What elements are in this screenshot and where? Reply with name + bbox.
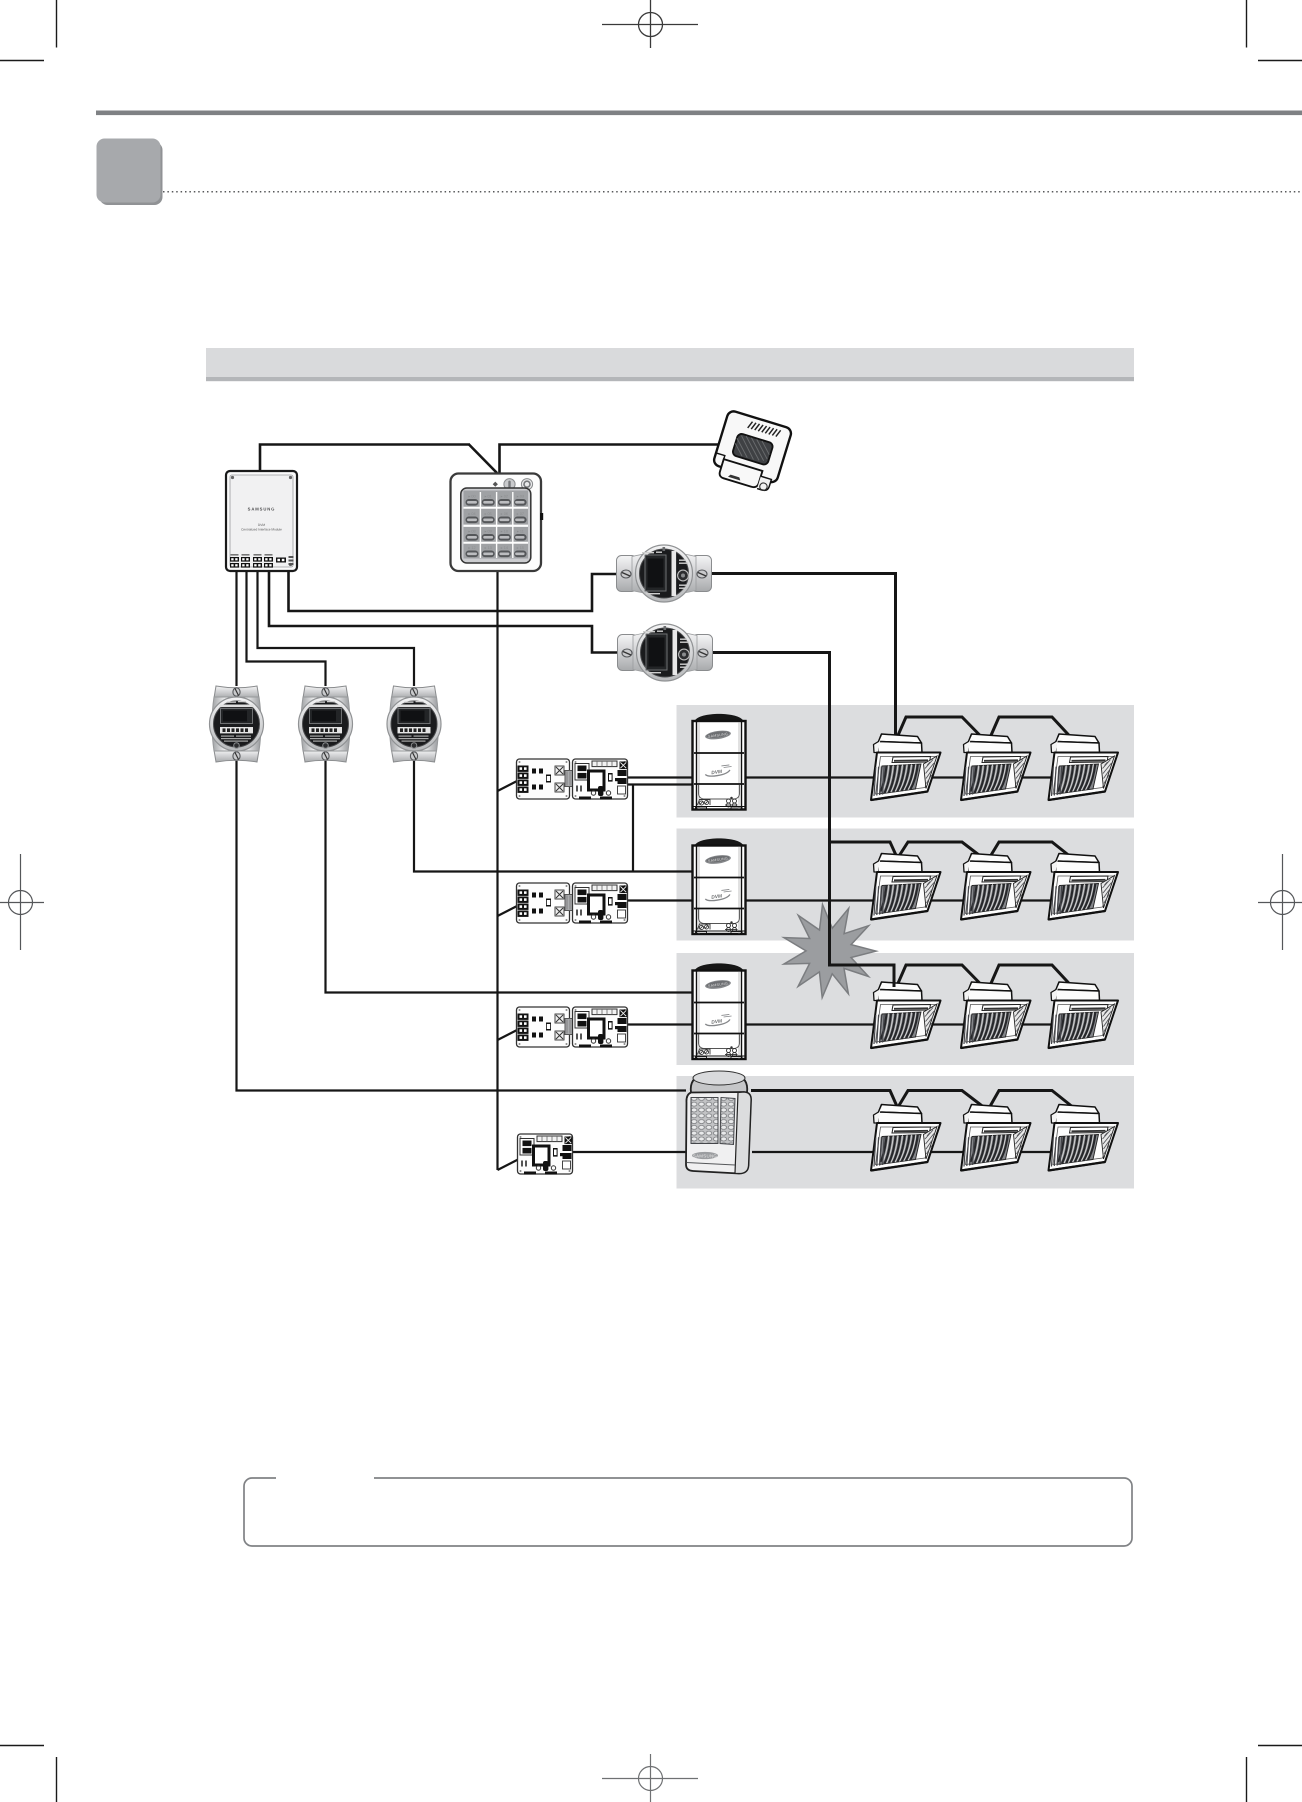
wire meter A to row4 feeder bbox=[237, 761, 687, 1091]
svg-text:▸ 07: ▸ 07 bbox=[517, 512, 524, 516]
svg-text:▸ 14: ▸ 14 bbox=[501, 546, 508, 550]
wire row4 cassette chain a bbox=[899, 1091, 984, 1108]
svg-text:▸ 02: ▸ 02 bbox=[501, 495, 508, 499]
wire branch to controller top bbox=[469, 445, 497, 474]
wire bus tap row2 bbox=[830, 842, 898, 859]
wire row1 outdoor-indoor line bbox=[745, 776, 1108, 778]
wire box to meter M1 bbox=[289, 571, 619, 611]
wire row4 pcb to outdoor bbox=[571, 1151, 688, 1153]
indoor cassette IU11 bbox=[961, 1105, 1031, 1171]
svg-text:▸ 03: ▸ 03 bbox=[517, 495, 524, 499]
wire interface box to gateway bbox=[260, 445, 470, 472]
wire row1 cassette chain b bbox=[991, 717, 1072, 738]
main pcb B1 row1 bbox=[573, 759, 628, 800]
indoor unit group panel row 4 bbox=[677, 1076, 1135, 1189]
note box bbox=[244, 1475, 1132, 1546]
svg-text:SAMSUNG: SAMSUNG bbox=[693, 1153, 718, 1158]
control wiring bbox=[260, 445, 724, 474]
outdoor unit ODU1 bbox=[693, 714, 746, 810]
svg-text:DVM: DVM bbox=[258, 523, 265, 527]
wire box to meter A bbox=[235, 571, 237, 686]
terminal icons bbox=[230, 554, 294, 568]
indoor cassette IU7 bbox=[871, 982, 941, 1048]
chapter number square shadow bbox=[100, 142, 163, 205]
wire row4 feeder to cassette bbox=[751, 1091, 898, 1108]
key rows bbox=[464, 491, 529, 559]
outdoor unit ODU4 (round top) bbox=[686, 1071, 751, 1174]
svg-text:▸ 00: ▸ 00 bbox=[468, 495, 475, 499]
indoor cassette IU8 bbox=[961, 982, 1031, 1048]
chapter number square bbox=[97, 139, 161, 203]
bottom crop mark right bbox=[1247, 1746, 1302, 1802]
communication lines behind indoor units bbox=[745, 778, 1108, 1153]
interface pcb A3 row3 bbox=[517, 1007, 574, 1047]
svg-text:▸ 04: ▸ 04 bbox=[468, 512, 475, 516]
wire meter M2 bus to row3 bbox=[712, 653, 894, 988]
wire row2 pcb to outdoor bbox=[628, 899, 692, 901]
svg-text:▸ 13: ▸ 13 bbox=[485, 546, 492, 550]
svg-text:▸ 09: ▸ 09 bbox=[485, 530, 492, 534]
indoor cassette IU5 bbox=[961, 854, 1031, 920]
wire row1 cassette chain a bbox=[898, 717, 984, 739]
svg-text:▸ 06: ▸ 06 bbox=[501, 512, 508, 516]
top crop mark left bbox=[0, 0, 57, 61]
wire row3 outdoor-indoor line bbox=[745, 1023, 1108, 1025]
wire row4 outdoor-indoor line bbox=[752, 1151, 1108, 1153]
wire box to meter B bbox=[247, 571, 326, 686]
wire row3 cassette chain b bbox=[991, 965, 1072, 986]
wire row4 cassette chain b bbox=[991, 1091, 1072, 1107]
main pcb B4 row4 bbox=[518, 1134, 573, 1175]
outdoor unit ODU2 bbox=[693, 838, 746, 934]
indoor cassette IU3 bbox=[1049, 734, 1119, 800]
svg-text:▸ 12: ▸ 12 bbox=[468, 546, 475, 550]
svg-text:▸ 01: ▸ 01 bbox=[485, 495, 492, 499]
wire trunk branch row1 bbox=[498, 781, 519, 792]
indoor unit group panel row 1 bbox=[677, 705, 1135, 818]
indoor cassette IU9 bbox=[1049, 982, 1119, 1048]
wire row3 pcb to outdoor bbox=[628, 1023, 693, 1025]
wire controller trunk bbox=[496, 571, 498, 1170]
interface pcb A1 row1 bbox=[517, 759, 574, 799]
main pcb B3 row3 bbox=[573, 1007, 628, 1048]
gateway module (tilted) bbox=[710, 410, 793, 494]
top gray rule bbox=[96, 111, 1302, 116]
main pcb B2 row2 bbox=[573, 883, 628, 924]
indoor cassette IU1 bbox=[871, 734, 941, 800]
svg-text:Centralized Interface Module: Centralized Interface Module bbox=[241, 528, 282, 532]
svg-text:▸ 10: ▸ 10 bbox=[501, 530, 508, 534]
svg-text:▸ 08: ▸ 08 bbox=[468, 530, 475, 534]
indoor unit group panel row 2 bbox=[677, 829, 1135, 941]
interface pcb A2 row2 bbox=[517, 883, 574, 923]
registration mark left edge bbox=[0, 854, 44, 950]
wire row2 cassette chain a bbox=[899, 842, 984, 859]
wire box to meter M2 bbox=[269, 571, 618, 653]
indoor unit group panel row 3 bbox=[677, 953, 1135, 1065]
watt-hour meter WHM4 bbox=[299, 686, 353, 762]
wire row2 outdoor-indoor line bbox=[745, 899, 1108, 901]
svg-text:▸ 11: ▸ 11 bbox=[517, 530, 524, 534]
wire meter B to row3 outdoor bbox=[326, 761, 693, 993]
indoor cassette IU4 bbox=[871, 854, 941, 920]
bottom crop mark left bbox=[0, 1746, 57, 1802]
registration mark right edge bbox=[1258, 854, 1302, 950]
wire row1 pcb to outdoor F1 bbox=[628, 776, 692, 778]
wire row2 cassette chain b bbox=[991, 842, 1072, 858]
top crop mark right bbox=[1247, 0, 1302, 61]
indoor cassette IU12 bbox=[1049, 1105, 1119, 1171]
interface module box bbox=[226, 471, 297, 571]
wire trunk branch row2 bbox=[498, 906, 519, 917]
indoor cassette IU6 bbox=[1049, 854, 1119, 920]
dotted leader line bbox=[163, 191, 1302, 193]
wire row3 cassette chain a bbox=[898, 965, 984, 987]
section title bar bbox=[206, 348, 1134, 377]
wire bus over starburst bbox=[830, 890, 895, 987]
fault starburst bbox=[784, 905, 876, 998]
wire meter C to row2 outdoor bbox=[414, 761, 692, 872]
watt-hour meter WHM5 bbox=[387, 686, 441, 762]
watt-hour meter WHM2 bbox=[618, 624, 713, 681]
wire box to meter C bbox=[258, 571, 415, 686]
wire trunk branch row3 bbox=[498, 1030, 519, 1041]
keypad recess bbox=[461, 488, 531, 563]
indoor cassette IU10 bbox=[871, 1105, 941, 1171]
outdoor unit ODU3 bbox=[693, 963, 746, 1059]
indoor cassette IU2 bbox=[961, 734, 1031, 800]
registration mark top center bbox=[602, 0, 698, 48]
wire meter M1 to row1 cassette drop bbox=[712, 574, 896, 741]
wire row1 pcb to outdoor F2 bbox=[628, 783, 692, 785]
wire controller top riser and gateway feed bbox=[500, 445, 725, 474]
svg-text:▸ 05: ▸ 05 bbox=[485, 512, 492, 516]
registration mark bottom center bbox=[602, 1754, 698, 1802]
centralized controller keypad bbox=[451, 474, 544, 572]
watt-hour meter WHM3 bbox=[210, 686, 264, 762]
svg-text:▸ 15: ▸ 15 bbox=[517, 546, 524, 550]
svg-text:SAMSUNG: SAMSUNG bbox=[248, 507, 276, 512]
wire row1 pcb down link bbox=[632, 785, 634, 872]
wire trunk branch row4 bbox=[498, 1160, 519, 1171]
watt-hour meter WHM1 bbox=[617, 545, 712, 602]
